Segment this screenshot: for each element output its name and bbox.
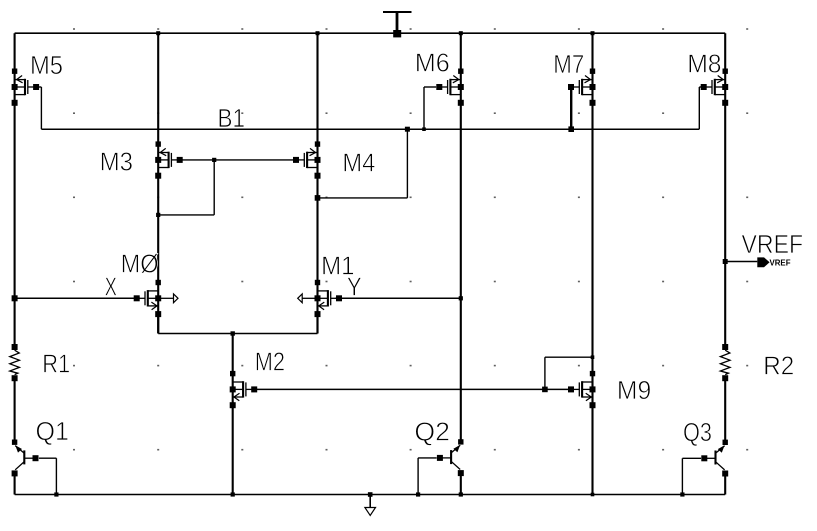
wire Q3 base to ground (682, 458, 701, 494)
wire M2 gate to M9 gate (254, 388, 571, 390)
node VREF output pin (757, 257, 790, 267)
wire M2 column (232, 334, 234, 495)
transistor M8 (701, 69, 729, 106)
wire M3 gate to M4 gate (180, 159, 296, 161)
svg-text:B1: B1 (218, 103, 246, 133)
svg-text:Q2: Q2 (414, 417, 450, 447)
label M9 (617, 375, 651, 405)
label M8 (687, 49, 721, 79)
node junction M3 drain (156, 213, 160, 217)
wire M9 diode connection (545, 357, 593, 389)
transistor M7 (568, 69, 596, 106)
wire top VDD rail (15, 32, 726, 34)
node junction gnd symbol (368, 492, 373, 497)
wire M4/M1 column (316, 33, 318, 333)
node junction M3 diode tap (212, 158, 216, 162)
wire node X to M0 gate (15, 297, 140, 299)
svg-text:M2: M2 (255, 346, 285, 376)
wire Q2 collector drop (460, 473, 462, 495)
label Q1 (36, 416, 69, 446)
power VDD supply symbol (383, 12, 412, 37)
svg-text:M8: M8 (687, 49, 721, 79)
label Q3 (683, 417, 712, 447)
wire M7/M9 column (591, 33, 593, 494)
wire VREF stub (725, 261, 757, 263)
svg-text:VREF: VREF (742, 229, 804, 259)
svg-text:R1: R1 (42, 349, 70, 379)
wire M3 diode connection (158, 160, 214, 215)
node junction gnd Q3-base (680, 492, 684, 496)
wire right rail lower (724, 474, 726, 495)
transistor M3 (155, 141, 183, 178)
transistor M5 (12, 69, 39, 106)
svg-text:X: X (105, 272, 117, 302)
label Y (347, 272, 362, 302)
node VREF junction (723, 259, 728, 264)
node junction B1/M4-drain (405, 127, 410, 132)
label M1 (321, 251, 355, 281)
node junction B1/M6-gate (422, 127, 426, 131)
wire M5 gate to B1 (35, 87, 42, 129)
ground symbol (365, 495, 376, 516)
resistor R1 (10, 344, 20, 381)
node X terminal pad (12, 295, 18, 301)
wire M3/M0 column (157, 33, 159, 333)
node junction gnd M2 (231, 492, 235, 496)
wire Q1 base to ground (39, 458, 57, 494)
svg-text:Q1: Q1 (36, 416, 69, 446)
transistor M1 (298, 280, 342, 317)
transistor Q3 (701, 440, 728, 477)
svg-text:M9: M9 (617, 375, 651, 405)
label M2 (255, 346, 285, 376)
label B1 (218, 103, 246, 133)
wire right rail mid (724, 379, 726, 443)
node junction top M3 column (156, 31, 160, 35)
label M0 (121, 249, 159, 279)
transistor Q2 (437, 439, 464, 476)
label Q2 (414, 417, 450, 447)
node junction M9 drain (591, 355, 595, 359)
svg-text:M3: M3 (100, 147, 133, 177)
wire left rail mid (14, 378, 16, 442)
node junction Y (459, 296, 463, 300)
label M4 (342, 148, 375, 178)
transistor M9 (568, 371, 596, 408)
wire M7 gate to B1 (570, 90, 572, 129)
svg-text:MØ: MØ (121, 249, 159, 279)
svg-text:R2: R2 (763, 351, 794, 381)
label M5 (30, 50, 63, 80)
wire ground rail (15, 494, 726, 496)
transistor Q1 (12, 440, 39, 477)
wire M8 gate to B1 (699, 87, 704, 129)
node junction top M7 column (591, 31, 595, 35)
wire M6 gate to B1 (424, 87, 436, 129)
transistor M4 (293, 141, 321, 178)
label X (105, 272, 117, 302)
node junction gnd Q2-collector (459, 492, 463, 496)
node junction M9 diode tap (542, 387, 548, 393)
wire M1 gate to node Y (335, 297, 460, 299)
node junction gnd M9 (591, 493, 595, 497)
wire left rail upper (14, 33, 16, 347)
label R1 (42, 349, 70, 379)
node junction gnd Q2-base (416, 492, 420, 496)
node junction gnd Q1-base (54, 492, 58, 496)
wire right rail upper (724, 33, 726, 347)
label M7 (553, 49, 584, 79)
wire M4 drain branch (318, 129, 408, 198)
node junction B1/M7-gate (568, 126, 574, 132)
svg-text:M4: M4 (342, 148, 375, 178)
resistor R2 (720, 344, 730, 381)
node junction top M6 column (459, 31, 463, 35)
transistor M0 (134, 280, 178, 317)
wire M6/Q2 column (460, 33, 462, 442)
node junction top M4 column (316, 31, 320, 35)
transistor M6 (436, 69, 464, 106)
wire left rail lower (14, 473, 16, 494)
svg-text:M6: M6 (415, 48, 450, 78)
svg-text:M7: M7 (553, 49, 584, 79)
wire differential pair sources join (158, 314, 317, 333)
label M3 (100, 147, 133, 177)
node junction M4 drain branch (315, 195, 321, 201)
wire net B1 horizontal (41, 128, 699, 130)
label VREF (742, 229, 804, 259)
node junction tail current (231, 331, 235, 335)
svg-text:Q3: Q3 (683, 417, 712, 447)
label R2 (763, 351, 794, 381)
label M6 (415, 48, 450, 78)
svg-text:Y: Y (347, 272, 362, 302)
svg-text:M5: M5 (30, 50, 63, 80)
transistor M2 (230, 371, 258, 408)
wire Q2 base to ground (418, 458, 437, 495)
